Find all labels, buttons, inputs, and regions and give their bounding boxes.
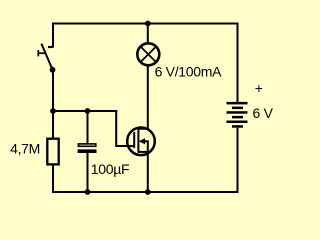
wire gate node horizontal: [53, 110, 117, 112]
wire switch upper (top rail down to switch contact): [52, 23, 54, 48]
svg-text:6 V/100mA: 6 V/100mA: [155, 63, 223, 79]
wire gate lead into transistor: [116, 145, 134, 147]
transistor T1 bulk arrow shaft: [144, 140, 149, 142]
capacitor C1 positive plate (hollow): [78, 144, 95, 146]
svg-text:+: +: [255, 80, 263, 96]
switch S1 lever (open): [41, 44, 52, 70]
wire top rail: [52, 23, 239, 25]
node junction at switch output: [50, 67, 56, 73]
transistor T1 bulk to source link: [147, 141, 149, 152]
lamp LA1 cross stroke 2: [141, 47, 157, 63]
battery B1 plate short 1: [232, 107, 243, 110]
battery B1 plate short 2: [232, 116, 243, 119]
wire resistor top: [52, 111, 54, 138]
transistor T1 gate bar: [133, 132, 135, 148]
lamp LA1 cross stroke 1: [141, 47, 157, 63]
wire bottom rail: [52, 191, 239, 193]
battery B1 plate long 2: [227, 111, 248, 114]
capacitor C1 negative plate (filled): [78, 149, 97, 153]
node junction capacitor bottom: [85, 189, 91, 195]
wire capacitor bottom: [87, 153, 89, 192]
wire gate drop vertical: [115, 110, 117, 147]
transistor T1 bulk arrow head: [139, 138, 145, 144]
transistor T1 source lead: [138, 151, 148, 153]
node junction lamp tap on top rail: [145, 21, 151, 27]
battery B1 plate short 3 (-): [232, 125, 243, 128]
wire resistor bottom: [52, 166, 54, 194]
wire lamp bottom to transistor drain: [147, 65, 149, 130]
wire battery top: [237, 23, 239, 104]
wire capacitor top: [87, 111, 89, 143]
wire lamp top: [147, 24, 149, 45]
svg-text:4,7M: 4,7M: [10, 140, 40, 156]
switch S1 pushbutton crossbar: [37, 50, 39, 56]
transistor T1 channel bar: [137, 128, 139, 153]
node junction source at bottom rail: [145, 189, 151, 195]
battery B1 plate long 1 (+): [227, 102, 248, 105]
svg-text:100µF: 100µF: [91, 161, 129, 177]
wire battery bottom: [237, 128, 239, 193]
resistor R1 body: [47, 139, 58, 165]
switch S1 pushbutton stem: [38, 52, 46, 54]
lamp LA1 circle: [137, 43, 159, 65]
wire switch output down to gate node: [52, 70, 54, 112]
wire source down to bottom rail: [147, 152, 149, 192]
transistor T1 drain lead: [138, 128, 148, 130]
transistor T1 body circle: [127, 128, 155, 156]
battery B1 plate long 3: [227, 121, 248, 124]
switch S1 fixed contact tick: [48, 46, 53, 48]
node junction capacitor tap: [85, 108, 91, 114]
node junction gate node left (resistor tap): [50, 108, 56, 114]
svg-text:6 V: 6 V: [253, 105, 274, 121]
